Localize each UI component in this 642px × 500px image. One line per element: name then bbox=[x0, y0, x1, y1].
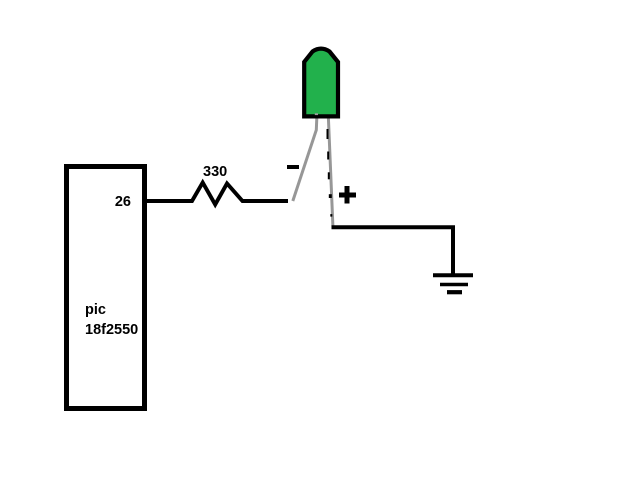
svg-text:26: 26 bbox=[115, 194, 131, 210]
svg-text:330: 330 bbox=[203, 164, 227, 180]
svg-text:pic: pic bbox=[85, 302, 106, 318]
svg-text:18f2550: 18f2550 bbox=[85, 322, 138, 338]
